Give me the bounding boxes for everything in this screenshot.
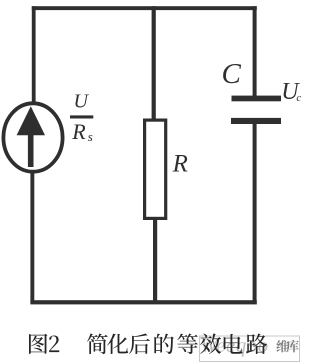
wire left vertical upper segment xyxy=(32,6,36,103)
wire middle vertical lower segment xyxy=(153,218,157,303)
svg-text:c: c xyxy=(296,92,301,104)
wire middle vertical upper segment xyxy=(152,6,156,120)
wire bottom horizontal xyxy=(30,300,256,304)
capacitor C bottom plate xyxy=(231,118,281,124)
watermark box xyxy=(200,336,300,362)
resistor R body xyxy=(145,120,166,218)
caption 图2 简化后的等效电路 xyxy=(29,334,47,354)
capacitor C top plate xyxy=(232,96,282,102)
current source circle xyxy=(3,103,62,171)
wire top horizontal xyxy=(32,6,257,10)
svg-text:C: C xyxy=(222,58,242,90)
wire right vertical upper segment xyxy=(253,6,257,97)
watermark 维库 xyxy=(276,340,288,352)
svg-text:R: R xyxy=(71,119,86,144)
wire left vertical lower segment xyxy=(30,171,34,303)
svg-text:R: R xyxy=(172,151,188,178)
svg-text:U: U xyxy=(74,91,90,113)
current source arrow shaft xyxy=(28,128,34,167)
fraction bar xyxy=(70,115,93,118)
current source arrow head xyxy=(17,106,45,135)
svg-text:s: s xyxy=(88,129,93,144)
wire right vertical lower segment xyxy=(253,123,257,303)
